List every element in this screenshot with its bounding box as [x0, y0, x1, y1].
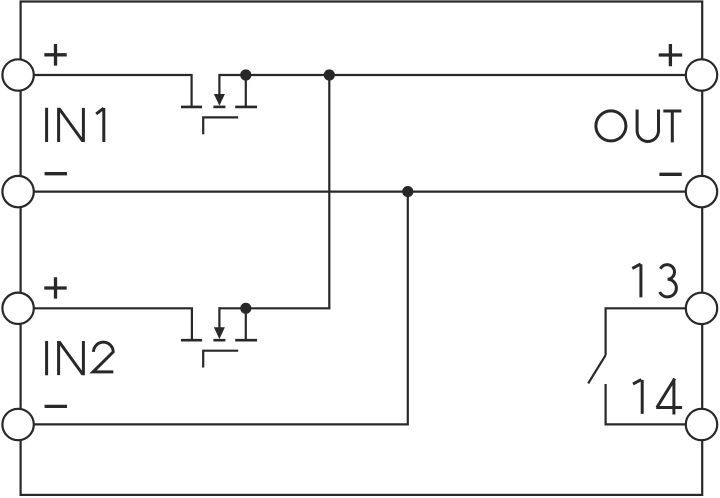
label IN2 — [47, 341, 114, 375]
terminal OUT+ — [686, 59, 717, 90]
junction Q1 source node — [240, 69, 251, 80]
junction OUT+ node — [324, 69, 335, 80]
contact lower lead to terminal 14 — [606, 384, 687, 424]
minus sign IN2 — [45, 405, 67, 408]
Q2 body-diode arrow stem — [218, 307, 220, 329]
Q2 gate — [203, 351, 238, 368]
transistor Q1 — [181, 74, 257, 134]
label OUT — [596, 110, 682, 143]
contact upper lead from terminal 13 — [606, 308, 686, 355]
junction OUT- node — [402, 186, 413, 197]
terminal IN1- — [2, 176, 33, 207]
label IN1 — [47, 108, 104, 142]
Q1 body bar — [213, 106, 225, 109]
plus sign OUT — [659, 44, 683, 66]
wire IN1- to OUT- — [33, 191, 687, 193]
terminal OUT- — [686, 176, 717, 207]
Q1 body-diode arrow stem — [218, 74, 220, 96]
label 13 — [632, 264, 676, 298]
junction Q2 source node — [240, 303, 251, 314]
transistor Q2 — [181, 307, 257, 367]
terminal IN2+ — [2, 293, 33, 324]
label 14 — [633, 379, 682, 415]
contact blade — [588, 355, 605, 383]
plus sign IN1 — [44, 44, 66, 66]
plus sign IN2 — [44, 277, 66, 298]
wire IN1+ to Q1 drain — [33, 75, 192, 107]
relay contact 13-14 — [588, 308, 687, 424]
Q1 body-diode arrowhead — [214, 94, 225, 106]
terminal IN1+ — [2, 59, 33, 90]
Q1 gate — [203, 117, 238, 134]
minus sign OUT — [659, 173, 681, 176]
terminal 13 — [686, 293, 717, 324]
Q2 body bar — [213, 339, 225, 342]
Q1 drain bar — [181, 106, 202, 109]
Q2 source lead — [245, 308, 247, 339]
Q2 body-diode arrowhead — [214, 327, 225, 339]
terminal 14 — [686, 409, 717, 440]
wire IN2- to OUT- line — [33, 192, 408, 425]
Q2 drain bar — [181, 339, 202, 342]
Q1 source bar — [235, 106, 257, 109]
Q2 source bar — [235, 339, 257, 342]
wire Q1 source to OUT+ — [219, 74, 686, 76]
Q1 source lead — [245, 75, 247, 106]
wire Q2 source up to OUT+ line — [219, 75, 329, 308]
minus sign IN1 — [45, 172, 67, 175]
terminal IN2- — [2, 409, 33, 440]
wire IN2+ to Q2 drain — [33, 308, 192, 339]
